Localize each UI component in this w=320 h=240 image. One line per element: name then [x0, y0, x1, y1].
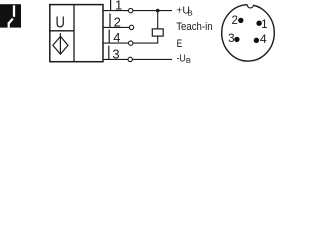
divider	[73, 5, 75, 62]
svg-text:3: 3	[228, 32, 234, 45]
transducer symbol	[53, 36, 68, 54]
svg-text:B: B	[186, 56, 191, 65]
tick wire 4	[108, 30, 110, 43]
wire junction to resistor	[157, 11, 159, 29]
tick wire 3	[108, 46, 110, 60]
svg-text:3: 3	[112, 46, 119, 61]
U cell bottom	[50, 30, 74, 32]
connector notch erase	[247, 3, 253, 6]
pin circle 1	[129, 8, 133, 12]
svg-text:U: U	[56, 15, 65, 32]
wire 2	[103, 26, 131, 28]
connector M12 face	[222, 5, 275, 61]
svg-text:B: B	[188, 8, 193, 17]
transducer axis line	[59, 33, 61, 54]
tick wire 2	[109, 13, 111, 27]
wire 1	[103, 10, 172, 12]
pin circle 4	[129, 41, 133, 45]
switch icon black square	[0, 4, 21, 27]
wire resistor to wire 4	[157, 36, 159, 43]
resistor R1	[152, 29, 163, 36]
svg-text:Teach-in: Teach-in	[176, 21, 212, 33]
svg-text:2: 2	[231, 14, 237, 27]
connector pin dot 1	[256, 21, 261, 26]
connector pin dot 4	[254, 38, 259, 43]
svg-text:1: 1	[115, 0, 122, 13]
svg-text:2: 2	[114, 14, 121, 29]
wire 4	[103, 42, 158, 44]
wire 3	[103, 58, 172, 60]
connector pin dot 3	[234, 37, 239, 42]
svg-text:4: 4	[260, 32, 267, 46]
svg-text:-U: -U	[177, 52, 186, 64]
svg-text:1: 1	[261, 18, 267, 31]
sensor box U1	[50, 5, 103, 62]
tick wire 1	[110, 0, 112, 11]
connector keyway notch	[247, 5, 253, 8]
pin circle 2	[129, 25, 133, 29]
pin circle 3	[128, 57, 132, 61]
connector pin dot 2	[238, 18, 243, 23]
svg-text:E: E	[177, 38, 183, 50]
svg-text:4: 4	[113, 30, 120, 45]
junction dot	[156, 9, 160, 13]
switch icon contact symbol	[13, 5, 15, 16]
